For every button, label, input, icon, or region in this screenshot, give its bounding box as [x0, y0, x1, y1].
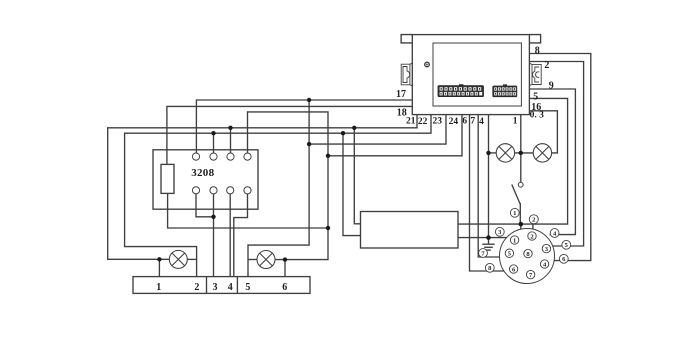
- svg-text:4: 4: [479, 117, 484, 127]
- wire flasher bottom 1 to bottom 2 join: [196, 194, 214, 217]
- wire load box lower left drop: [343, 133, 361, 235]
- wire 18 from ECU to resistor R1 top: [167, 106, 412, 164]
- svg-text:1: 1: [513, 210, 516, 217]
- wire vertical A: wire17/23 node down to strip terminal 5: [248, 100, 309, 277]
- svg-text:17: 17: [396, 89, 406, 100]
- svg-text:7: 7: [470, 117, 475, 127]
- terminal strip labels: [156, 282, 287, 293]
- wire 21 tap to strip terminal 1: [158, 259, 160, 276]
- ground symbol: [482, 238, 494, 251]
- wire flasher bottom 2 to strip terminal 3: [213, 194, 215, 277]
- wire load box upper left drop: [354, 128, 360, 224]
- wire ECU pin 7 to connector pin 7: [478, 115, 499, 257]
- svg-text:6: 6: [282, 282, 287, 293]
- wire 21 bus: ECU pin 21, load box upper, flasher top 3, left rail to lamp HL1: [108, 115, 417, 260]
- svg-text:2: 2: [194, 282, 199, 293]
- wire flasher top terminal 3 riser: [230, 128, 232, 153]
- svg-text:22: 22: [418, 117, 428, 127]
- lamp HL4: [533, 144, 551, 162]
- svg-text:5: 5: [245, 282, 250, 293]
- wire 22 bus: ECU pin 22, load box lower, flasher top 2, rail to strip terminal 2: [125, 115, 431, 277]
- ECU top-right mounting tab: [529, 35, 540, 43]
- svg-text:2: 2: [544, 60, 549, 71]
- load resistor block R2: [361, 212, 459, 249]
- wire resistor R1 bottom to vertical B: [168, 193, 328, 228]
- wire ECU pin 1 to switch S1: [520, 115, 522, 183]
- svg-text:8: 8: [535, 46, 540, 57]
- svg-text:6: 6: [462, 117, 467, 127]
- wire tap to strip terminal 6: [284, 260, 286, 277]
- wire stub to connector pin 2: [532, 224, 534, 229]
- wire 8 from ECU to connector pin 6: [529, 54, 590, 261]
- svg-text:1: 1: [513, 237, 516, 244]
- ECU pin number labels: [396, 46, 554, 127]
- wire load box lower right to connector pin 3: [458, 237, 507, 239]
- flasher terminals top row: [192, 153, 251, 194]
- wire 5 from ECU to switch node and load box upper right: [458, 98, 568, 224]
- svg-text:21: 21: [406, 117, 416, 127]
- terminal strip XT: [133, 277, 310, 294]
- junction nodes: [157, 98, 523, 262]
- ECU control unit A1 outer case: [412, 35, 529, 115]
- round connector X1 body: [500, 229, 555, 284]
- svg-text:24: 24: [449, 117, 459, 127]
- wire lamp HL1 right lead: [187, 258, 197, 260]
- wire ECU pin 4 to ground node: [488, 115, 490, 238]
- wire vertical B: flasher top 4 route down to lamp HL2 right: [248, 112, 329, 260]
- svg-text:5: 5: [533, 91, 538, 102]
- svg-text:1: 1: [513, 117, 518, 127]
- lamp HL1: [169, 250, 187, 268]
- wire ECU pin 6 to connector pin 8: [470, 115, 504, 271]
- switch S1: [512, 182, 523, 224]
- wire lamp HL3 left lead: [489, 152, 497, 154]
- wire 17 from ECU to flasher terminal 1: [196, 100, 412, 153]
- svg-text:0. 3: 0. 3: [530, 111, 545, 121]
- svg-text:4: 4: [228, 282, 233, 293]
- wire flasher top terminal 2 riser: [213, 133, 215, 153]
- lamp HL3: [496, 144, 514, 162]
- wire stub node to connector pin 1: [520, 224, 522, 230]
- wire 2 from ECU to connector pin 5: [529, 62, 583, 247]
- wire 9 from ECU to connector pin 4: [529, 89, 575, 235]
- svg-text:3: 3: [213, 282, 218, 293]
- connector X1 outside wire labels: [479, 208, 571, 272]
- wire between lamps HL3 and HL4: [515, 152, 534, 154]
- flasher unit 3208 box: [153, 150, 258, 209]
- svg-text:1: 1: [156, 282, 161, 293]
- wire lamp HL2 left lead: [248, 259, 257, 261]
- svg-text:9: 9: [549, 81, 554, 92]
- resistor R1: [161, 164, 174, 193]
- wire 24 from ECU pin 24 to vertical B: [328, 115, 462, 156]
- ECU inner panel: [433, 43, 521, 106]
- ECU connector block CN2: [493, 84, 517, 96]
- ECU left mounting bracket: [401, 63, 412, 86]
- wire flasher bottom 3 to strip terminal 4: [229, 194, 231, 277]
- lamp HL2: [257, 251, 275, 269]
- ECU top-left mounting tab: [401, 35, 412, 43]
- connector X1 inner pins: [505, 232, 550, 279]
- wire 16 from ECU to lamp HL4 right: [529, 111, 557, 153]
- ECU connector block CN1: [438, 84, 484, 96]
- ECU right mounting bracket: [529, 63, 541, 85]
- wire 23 from ECU pin 23 to node A: [309, 115, 446, 145]
- wire flasher bottom 4 to strip terminal 4: [234, 194, 248, 277]
- svg-text:23: 23: [432, 117, 442, 127]
- flasher terminals bottom row: [192, 187, 199, 194]
- svg-text:3208: 3208: [191, 167, 214, 179]
- ECU case screw: [425, 62, 430, 67]
